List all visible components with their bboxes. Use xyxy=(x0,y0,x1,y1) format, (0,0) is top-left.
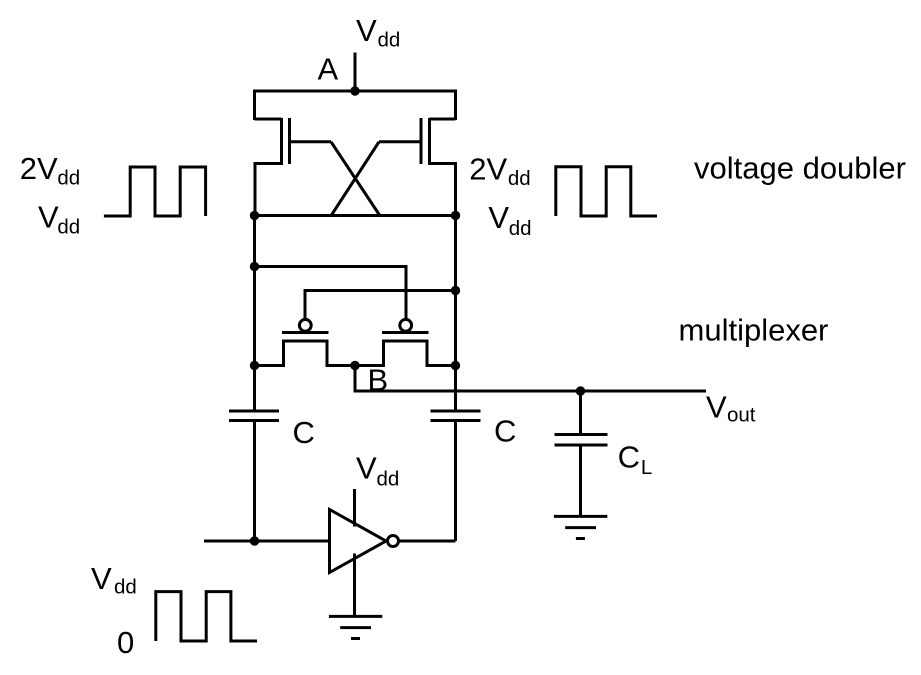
label 2Vdd right xyxy=(469,151,530,190)
transistor M3 left leg xyxy=(255,341,284,366)
op-amp U1 inverter triangle xyxy=(330,510,387,573)
svg-text:V: V xyxy=(356,450,377,485)
waveform right clock xyxy=(556,167,657,216)
wire inverter Vdd lead xyxy=(353,489,356,527)
label multiplexer xyxy=(679,312,829,347)
transistor M4 right leg xyxy=(427,341,456,366)
label Vdd bottom clock xyxy=(91,561,137,599)
transistor M4 gate bubble xyxy=(400,319,412,331)
wire left rail xyxy=(253,216,256,411)
wire cross-couple diagonal M2 gate to left node xyxy=(331,142,379,216)
label Vout xyxy=(706,390,756,427)
capacitor C right plates xyxy=(431,411,481,421)
junction dot left doubler node xyxy=(250,211,259,220)
svg-text:V: V xyxy=(706,390,727,425)
svg-text:C: C xyxy=(618,439,640,474)
label Vdd right xyxy=(488,200,531,240)
junction dot inverter input on left rail xyxy=(250,536,259,545)
svg-text:dd: dd xyxy=(57,215,80,238)
transistor M3 gate bar xyxy=(282,331,329,334)
svg-text:V: V xyxy=(91,561,112,596)
junction dot mux left xyxy=(250,361,259,370)
capacitor CL lead upper xyxy=(579,391,582,435)
label 0 bottom clock xyxy=(117,625,134,660)
node A label xyxy=(318,51,339,86)
capacitor CL label xyxy=(618,439,653,479)
svg-text:multiplexer: multiplexer xyxy=(679,312,829,347)
node A junction dot xyxy=(350,86,359,95)
power label Vdd top xyxy=(356,13,400,51)
transistor M2 channel bar xyxy=(428,118,431,165)
power label Vdd inverter xyxy=(356,450,399,490)
wire node B to Vout xyxy=(355,366,706,392)
svg-text:V: V xyxy=(38,199,59,234)
label 2Vdd left xyxy=(20,151,80,189)
label voltage doubler xyxy=(694,150,906,185)
transistor M1 gate lead xyxy=(290,140,332,143)
transistor M4 channel bar xyxy=(382,340,429,343)
node B junction dot xyxy=(350,361,359,370)
svg-text:dd: dd xyxy=(509,217,532,240)
svg-text:V: V xyxy=(356,13,377,48)
capacitor CL plates xyxy=(555,435,608,446)
svg-text:dd: dd xyxy=(57,167,80,190)
capacitor C left plates xyxy=(229,411,279,421)
ground symbol under CL xyxy=(554,516,607,538)
svg-text:dd: dd xyxy=(508,167,531,190)
transistor M3 right leg xyxy=(327,341,355,366)
svg-text:V: V xyxy=(488,200,509,235)
transistor M2 gate bar xyxy=(420,118,423,164)
junction dot right doubler node xyxy=(451,211,460,220)
capacitor C right label xyxy=(494,413,516,448)
transistor M2 drain lead xyxy=(430,118,456,121)
svg-text:2V: 2V xyxy=(20,151,58,186)
wire cross-couple diagonal M1 gate to right node xyxy=(331,142,380,216)
transistor M1 source lead xyxy=(255,164,282,216)
wire top rail xyxy=(255,91,456,120)
waveform left clock xyxy=(104,167,206,216)
transistor M2 source lead xyxy=(430,164,456,216)
junction dot A-wire on left rail xyxy=(250,262,259,271)
wire bottom rail of doubler xyxy=(255,214,456,217)
wire inverter ground lead xyxy=(353,554,356,617)
svg-text:C: C xyxy=(293,415,315,450)
transistor M3 gate bubble xyxy=(299,319,311,331)
op-amp U1 output bubble xyxy=(388,536,399,547)
svg-text:voltage doubler: voltage doubler xyxy=(694,150,906,185)
transistor M4 left leg xyxy=(355,341,384,366)
svg-text:dd: dd xyxy=(378,29,401,52)
capacitor CL lead lower xyxy=(579,445,582,516)
svg-text:L: L xyxy=(641,456,652,479)
waveform bottom clock xyxy=(156,592,257,641)
transistor M2 gate lead xyxy=(379,140,421,143)
svg-text:2V: 2V xyxy=(469,151,507,186)
wire node A to M4 gate xyxy=(255,267,407,320)
junction dot on right rail xyxy=(451,286,460,295)
wire inverter input xyxy=(204,540,330,543)
transistor M1 drain lead xyxy=(255,118,282,121)
wire inverter output xyxy=(400,540,456,543)
transistor M1 gate bar xyxy=(288,118,291,164)
capacitor C left label xyxy=(293,415,315,450)
wire right rail lower xyxy=(454,421,457,542)
transistor M3 channel bar xyxy=(282,340,329,343)
junction dot mux right xyxy=(451,361,460,370)
label Vdd left xyxy=(38,199,80,238)
transistor M1 channel bar xyxy=(280,118,283,165)
wire Vdd supply lead xyxy=(354,53,357,92)
svg-text:dd: dd xyxy=(377,467,400,490)
wire right node to M3 gate xyxy=(305,291,456,320)
ground symbol under inverter xyxy=(329,616,382,638)
svg-text:dd: dd xyxy=(114,576,137,599)
svg-text:out: out xyxy=(727,404,756,427)
svg-text:0: 0 xyxy=(117,625,134,660)
node B label xyxy=(368,362,389,397)
junction dot CL tap xyxy=(576,386,585,395)
svg-text:C: C xyxy=(494,413,516,448)
wire right rail xyxy=(454,216,457,411)
transistor M4 gate bar xyxy=(382,331,429,334)
wire left rail lower xyxy=(253,421,256,542)
svg-text:A: A xyxy=(318,51,339,86)
